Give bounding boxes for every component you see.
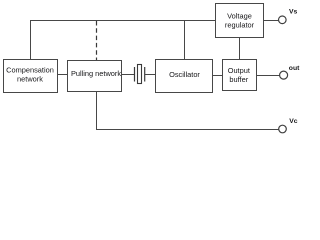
- block oscillator: [156, 60, 213, 93]
- svg-text:Vc: Vc: [289, 118, 298, 125]
- wire pulling network to crystal: [122, 74, 135, 76]
- svg-text:out: out: [289, 65, 300, 72]
- svg-text:Vs: Vs: [289, 9, 298, 16]
- wire dashed drop to pulling network: [96, 21, 98, 61]
- terminal Vs: [279, 16, 287, 24]
- svg-text:Output: Output: [228, 66, 250, 75]
- svg-text:buffer: buffer: [229, 75, 248, 84]
- wire regulator to Vs terminal: [264, 20, 279, 22]
- wire compensation to pulling network: [58, 74, 69, 76]
- svg-text:regulator: regulator: [225, 21, 255, 30]
- wire output buffer to out terminal: [257, 75, 280, 77]
- wire pulling network to Vc terminal: [97, 92, 279, 130]
- block voltage regulator: [216, 4, 264, 38]
- block pulling network: [68, 61, 122, 92]
- svg-text:Oscillator: Oscillator: [169, 70, 200, 79]
- terminal Vc: [279, 125, 287, 133]
- wire oscillator to output buffer: [213, 75, 223, 77]
- svg-text:Voltage: Voltage: [227, 12, 252, 21]
- terminal out: [280, 71, 288, 79]
- wire top supply bus: [31, 21, 216, 60]
- wire crystal to oscillator: [145, 74, 156, 76]
- svg-text:Compensation: Compensation: [6, 66, 54, 75]
- wire drop to oscillator: [184, 21, 186, 60]
- crystal: [135, 65, 145, 84]
- wire regulator to output buffer: [239, 38, 241, 60]
- svg-text:Pulling network: Pulling network: [71, 69, 121, 78]
- svg-text:network: network: [17, 75, 43, 84]
- block output buffer: [223, 60, 257, 91]
- block compensation network: [4, 60, 58, 93]
